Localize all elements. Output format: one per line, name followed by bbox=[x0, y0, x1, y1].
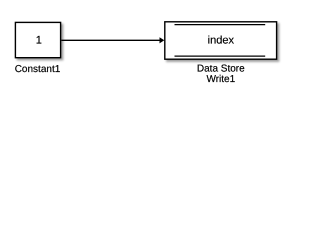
svg-text:1: 1 bbox=[36, 35, 42, 47]
svg-text:Data Store: Data Store bbox=[197, 64, 245, 75]
label Data Store Write1 bbox=[197, 64, 245, 85]
svg-text:index: index bbox=[208, 35, 235, 47]
svg-text:Constant1: Constant1 bbox=[15, 64, 61, 75]
constant block Constant1 bbox=[15, 22, 60, 57]
svg-text:Write1: Write1 bbox=[206, 74, 235, 85]
wire bbox=[61, 39, 160, 41]
arrowhead bbox=[160, 37, 165, 43]
label Constant1 bbox=[15, 64, 61, 75]
data store write block Write1 bbox=[165, 22, 277, 59]
